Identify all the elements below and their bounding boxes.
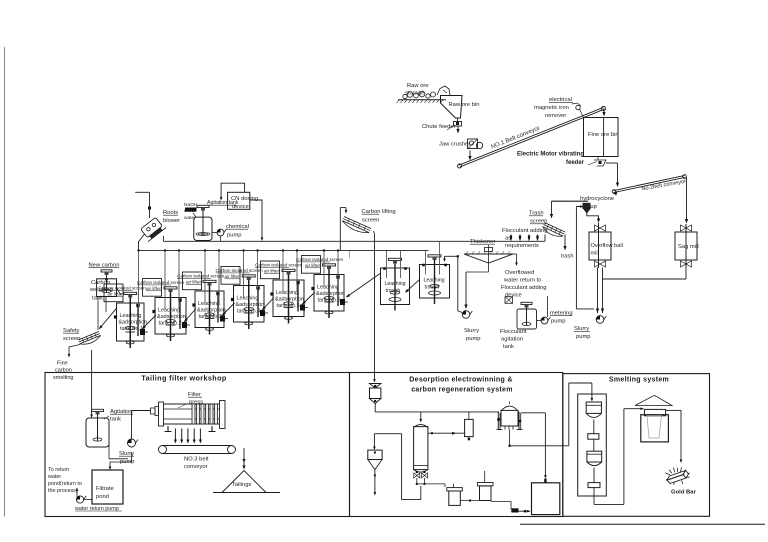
svg-text:Flocculant adding: Flocculant adding [501,285,546,291]
svg-text:magnetic iron: magnetic iron [534,105,569,111]
svg-text:requirements: requirements [505,243,539,249]
svg-text:screen: screen [63,336,80,342]
svg-text:CN dosing: CN dosing [231,196,258,202]
svg-text:tank: tank [503,344,514,350]
svg-text:Carbon isolated screen: Carbon isolated screen [177,274,225,279]
svg-text:pump: pump [576,334,591,340]
svg-text:Gold Bar: Gold Bar [671,490,697,496]
svg-text:Leaching: Leaching [237,296,259,302]
svg-text:Jaw crusher: Jaw crusher [439,142,470,148]
svg-text:mill: mill [591,251,599,257]
svg-text:Fine ore bin: Fine ore bin [588,132,619,138]
svg-text:Leaching: Leaching [276,290,298,296]
svg-text:&adsorption: &adsorption [197,308,226,314]
svg-text:Tailings: Tailings [232,482,251,488]
svg-text:To return: To return [48,467,69,473]
svg-text:Chute feeder: Chute feeder [422,124,456,130]
svg-text:smelting: smelting [53,375,73,381]
svg-text:Raw ore bin: Raw ore bin [449,102,480,108]
svg-text:remover: remover [545,113,566,119]
svg-text:Carbon isolated screen: Carbon isolated screen [137,280,185,285]
svg-text:&adsorption: &adsorption [275,297,304,303]
svg-text:trash: trash [561,254,573,260]
svg-text:Slurry: Slurry [464,328,479,334]
svg-text:conveyor: conveyor [184,464,208,470]
svg-text:NaOH: NaOH [184,202,198,208]
svg-text:pump: pump [466,336,481,342]
svg-text:tank: tank [92,296,103,302]
svg-text:pond: pond [96,494,109,500]
svg-text:Filtrate: Filtrate [96,486,114,492]
svg-text:pond(return to: pond(return to [48,481,82,487]
svg-text:Smelting system: Smelting system [609,377,669,384]
svg-text:air lifter: air lifter [264,269,280,274]
svg-text:trough: trough [425,285,440,291]
svg-text:blower: blower [163,218,180,224]
svg-text:the process): the process) [48,488,78,494]
svg-text:tank No.1: tank No.1 [120,326,143,332]
svg-text:Desorption electrowinning &: Desorption electrowinning & [409,377,512,384]
svg-text:Sag mill: Sag mill [678,244,699,250]
svg-text:water return to: water return to [503,278,541,284]
svg-text:agitation: agitation [501,337,523,343]
svg-text:water: water [47,474,61,480]
svg-text:tank No.4: tank No.4 [237,309,260,315]
svg-text:Leaching: Leaching [317,285,339,291]
svg-text:Overflowed: Overflowed [505,270,534,276]
svg-text:Leaching: Leaching [424,278,445,284]
svg-text:air lifter: air lifter [186,280,202,285]
svg-text:Tailing filter workshop: Tailing filter workshop [141,374,227,383]
svg-text:air lifter: air lifter [225,274,241,279]
svg-text:air lifter: air lifter [305,263,321,268]
svg-text:tank No.5: tank No.5 [277,303,300,309]
svg-text:air lifter: air lifter [146,286,162,291]
svg-text:feeder: feeder [566,160,585,166]
svg-text:pump: pump [551,319,566,325]
svg-text:Leaching: Leaching [385,281,406,287]
svg-text:tank No.3: tank No.3 [199,314,222,320]
svg-text:tank No.2: tank No.2 [159,321,182,327]
svg-text:tank No.6: tank No.6 [318,298,341,304]
svg-text:&adsorption: &adsorption [316,291,345,297]
svg-text:Electric Motor vibrating: Electric Motor vibrating [517,152,584,158]
svg-text:carbon regeneration system: carbon regeneration system [411,387,513,394]
svg-text:&adsorption: &adsorption [236,302,265,308]
svg-text:Leaching: Leaching [198,301,220,307]
svg-text:device: device [505,293,522,299]
svg-text:device: device [232,204,249,210]
svg-text:trough: trough [386,288,401,294]
svg-text:Flocculant adding: Flocculant adding [502,228,547,234]
svg-text:Carbon isolated screen: Carbon isolated screen [296,257,344,262]
svg-text:weighing: weighing [89,287,113,293]
svg-text:Leaching: Leaching [158,308,180,314]
svg-text:Carbon isolated screen: Carbon isolated screen [216,268,264,273]
svg-text:pump: pump [227,233,242,239]
svg-text:Flocculant: Flocculant [500,329,527,335]
svg-text:Raw ore: Raw ore [407,83,429,89]
svg-text:Carbon isolated screen: Carbon isolated screen [255,263,303,268]
svg-text:&adsorption: &adsorption [157,314,186,320]
svg-text:NO.3 belt: NO.3 belt [184,457,209,463]
svg-text:Overflow ball: Overflow ball [591,243,623,249]
svg-text:tank: tank [110,417,121,423]
svg-text:screen: screen [362,218,379,224]
svg-text:Carbon: Carbon [91,280,110,286]
svg-text:Fine: Fine [57,361,68,367]
svg-text:&adsorption: &adsorption [119,320,148,326]
